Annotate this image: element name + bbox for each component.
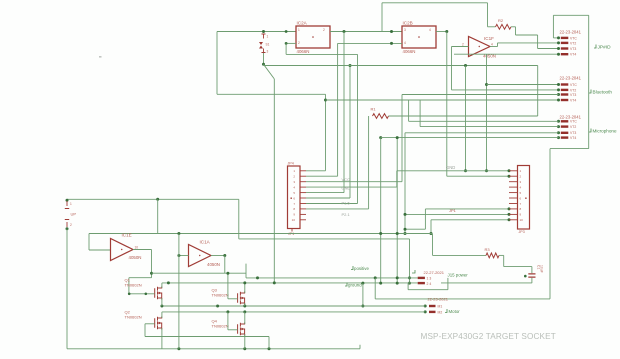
connector JP1 center mark <box>291 198 292 199</box>
node E line x227 <box>226 310 229 313</box>
node bottom rail x244 <box>243 347 246 350</box>
svg-text:JP3: JP3 <box>519 230 525 234</box>
svg-text:4: 4 <box>491 43 493 47</box>
connector JP3 pin 7 stub <box>509 203 518 205</box>
switch S1 arrow glyphs <box>259 42 263 49</box>
connector JP5 pin 2 junction <box>557 88 560 91</box>
node right socket pin 8 junction <box>508 207 511 210</box>
node positive rail x257 <box>256 276 259 279</box>
wire socket JP1 pin 4 line <box>306 186 397 188</box>
node x405 bus A <box>404 232 407 235</box>
wire IC1F input stub <box>452 46 469 48</box>
IC2B inner mark <box>418 36 420 38</box>
switch S1 pin 1 mark <box>262 34 266 39</box>
wire vertical x537 bus to R1 line <box>537 66 539 117</box>
wire IC1A output vertical x224 <box>224 256 226 274</box>
wire Q2 gate horizontal y336 <box>145 336 269 338</box>
wire socket JP1 pin 2 stub <box>306 175 338 177</box>
connector JP3 pin 9 stub <box>509 213 518 215</box>
jumper UP symbol mark <box>65 209 69 220</box>
node D line x161 <box>160 305 163 308</box>
connector JP1 pin 6 stub <box>300 197 306 199</box>
wire Q2 gate vertical x145 <box>144 324 146 337</box>
svg-text:ground: ground <box>348 283 362 288</box>
connector JP3 pin 4 stub <box>509 186 518 188</box>
connector JP3 pin 8 stub <box>509 208 518 210</box>
connector JP1 pin 8 stub <box>300 208 306 210</box>
wire ground rail y283 <box>162 282 418 284</box>
svg-text:4: 4 <box>429 28 431 32</box>
svg-text:VT3: VT3 <box>570 47 576 51</box>
svg-text:VTC: VTC <box>570 83 577 87</box>
wire to JP2 pin 3 <box>538 48 559 50</box>
svg-text:P2.1: P2.1 <box>342 212 351 217</box>
svg-text:10uF: 10uF <box>540 265 544 273</box>
wire power jumper bracket horizontal <box>408 289 448 291</box>
wire socket JP1 pin 1 stub <box>306 170 326 172</box>
node Q3 drain junction <box>243 281 246 284</box>
transistor Q3 <box>238 292 245 305</box>
connector JP3 pin 10 stub <box>509 219 518 221</box>
wire Q4 gate <box>228 329 238 331</box>
svg-text:4050N: 4050N <box>129 255 142 260</box>
wire C step vertical x246 <box>245 264 247 278</box>
node ground rail x397 <box>396 282 399 285</box>
wire socket JP1 pin 3 long stub <box>306 181 402 183</box>
node D line x244 <box>243 305 246 308</box>
wire vertical bus x357 to socket pin 7 <box>357 54 359 203</box>
svg-text:Microphone: Microphone <box>593 129 617 134</box>
svg-text:JP#ID: JP#ID <box>598 45 612 51</box>
wire Bluetooth pin 3 line <box>402 94 559 96</box>
wire right rail vertical x550 <box>549 149 551 299</box>
connector JP5 pin 1 junction <box>557 83 560 86</box>
resistor R3 <box>486 253 499 258</box>
jumper UP pin 1 stub <box>66 201 68 206</box>
connector JP8 pin 1 junction <box>424 305 427 308</box>
wire socket JP1 pin 8 stub <box>306 208 369 210</box>
svg-text:22-23-2041: 22-23-2041 <box>560 76 582 81</box>
node IC1A input junction <box>177 254 180 257</box>
connector JP2 pin 3 <box>561 47 569 49</box>
wire x269 down to rail <box>268 337 270 349</box>
node ground rail x274 <box>273 281 276 284</box>
node switch top junction <box>262 30 265 33</box>
node right socket pin 10 junction <box>508 218 511 221</box>
wire right rail vertical x588 <box>588 15 590 148</box>
wire IC1E output step left y277 <box>129 277 152 279</box>
svg-text:TN0602N: TN0602N <box>212 324 229 329</box>
connector JP1 pin 9 stub <box>300 213 306 215</box>
wire to right socket pin 9 <box>405 213 509 215</box>
node jumper UP top <box>66 199 69 202</box>
wire R1 right lead <box>389 115 538 117</box>
wire long vertical x274 <box>273 79 275 283</box>
wire R2 right lead <box>511 26 516 28</box>
wire z-route y229 <box>405 228 425 230</box>
node bus A x380 <box>379 232 382 235</box>
wire JP2 pin4 line <box>454 53 559 55</box>
node x409 ground rail <box>408 282 411 285</box>
svg-text:10: 10 <box>135 246 139 250</box>
wire to right socket pin 10 <box>431 219 509 221</box>
svg-text:R2: R2 <box>498 18 504 23</box>
wire gnd vertical x397 <box>396 138 398 284</box>
connector JP3 pin 1 stub <box>509 170 518 172</box>
wire Q3 gate vertical x227 <box>227 273 229 299</box>
wire Q2 gate <box>145 323 155 325</box>
svg-text:R1: R1 <box>371 107 377 112</box>
connector JP3 pin 3 stub <box>509 181 518 183</box>
node Q1 gate corner <box>128 293 131 296</box>
wire gnd vertical x486 <box>486 54 488 171</box>
wire right rail step y148 <box>550 148 589 150</box>
power jumper pin row 1 <box>418 277 425 279</box>
wire gnd vertical x380 <box>380 138 382 284</box>
wire vertical x157 to bus A <box>157 199 159 233</box>
connector JP2 pin 2 junction <box>557 41 560 44</box>
node IC2B pin2 junction <box>390 42 393 45</box>
svg-text:TN0602N: TN0602N <box>212 293 229 298</box>
op-amp IC1A triangle <box>189 245 212 267</box>
wire micro pin 2 line <box>420 126 558 128</box>
wire bottom rail end tick <box>359 345 361 349</box>
connector JP5 pin 3 junction <box>557 93 560 96</box>
switch S1 blade diagonal <box>264 64 275 79</box>
wire top loop horizontal y3 <box>382 2 488 4</box>
node right socket pin 9 junction <box>508 213 511 216</box>
wire long vertical x178 <box>178 234 180 349</box>
wire bottom rail y348 <box>67 348 360 350</box>
label net positive glyph <box>351 266 353 270</box>
node positive rail x397 <box>396 276 399 279</box>
wire gnd step vertical x396 <box>396 171 398 187</box>
wire vertical x446 to header pin <box>446 32 448 177</box>
jumper UP pin 2 stub <box>66 222 68 227</box>
wire power jumper bracket vertical <box>447 278 449 290</box>
wire R2 left lead <box>488 26 496 28</box>
node y199 line x157 junction <box>156 198 159 201</box>
wire GND line to right socket pin 1 <box>397 170 509 172</box>
svg-text:VT2: VT2 <box>570 125 576 129</box>
wire IC2B output <box>436 31 447 33</box>
label JP#ID glyph <box>594 45 596 49</box>
label net ground glyph <box>345 283 347 287</box>
node C line x151 <box>150 272 153 275</box>
wire to connector JP2 pin 4 <box>326 99 559 101</box>
connector JP3 pin 6 stub <box>509 197 518 199</box>
wire micro pin 4 line <box>381 137 559 139</box>
connector JP2 pin 2 <box>561 42 569 44</box>
op-amp IC1E triangle <box>111 239 134 261</box>
wire IC1E input <box>89 249 111 251</box>
svg-text:M1: M1 <box>438 305 443 309</box>
power jumper pin row 2 <box>418 282 425 284</box>
svg-text:VT4: VT4 <box>570 136 576 140</box>
wire R3 step right <box>504 266 532 268</box>
op-amp U IC2B box <box>402 26 436 48</box>
IC2A inner mark <box>312 36 314 38</box>
connector JP1 pin 7 stub <box>300 203 306 205</box>
svg-text:M2: M2 <box>438 311 443 315</box>
wire IC1F input vertical x451 <box>451 47 453 90</box>
svg-text:J15 power: J15 power <box>448 273 469 278</box>
wire Q3 source <box>244 303 246 306</box>
node Q1 gate x145 <box>145 293 148 296</box>
wire IC2A output to IC2B input <box>330 31 402 33</box>
wire Q2 source <box>161 328 163 349</box>
op-amp IC1F triangle <box>469 37 491 57</box>
connector JP1 pin 2 stub <box>300 175 306 177</box>
svg-text:JP4: JP4 <box>288 162 294 166</box>
svg-text:IC1E: IC1E <box>122 232 132 237</box>
node IC1A output junction <box>223 254 226 257</box>
wire bus A left vertical x89 <box>88 234 90 251</box>
wire IC1A output <box>211 255 225 257</box>
wire Q1 drain <box>161 283 163 288</box>
resistor R2 <box>496 24 512 29</box>
svg-text:IC1A: IC1A <box>200 240 211 245</box>
svg-text:22-23-2021: 22-23-2021 <box>428 297 449 302</box>
wire capacitor bottom lead <box>531 278 533 283</box>
connector JP6 pin 1 junction <box>557 120 560 123</box>
svg-text:VCC: VCC <box>342 177 351 182</box>
wire vertical bus x350 to socket pin 6 <box>349 66 351 199</box>
wire z-route vertical x425 <box>424 209 426 229</box>
node junction x486 Bluetooth pin1 <box>485 83 488 86</box>
wire x362 to D line <box>362 283 364 306</box>
node x397 top junction <box>396 136 399 139</box>
connector JP5 pin 1 <box>561 83 569 85</box>
label Microphone glyph <box>589 129 591 133</box>
node bus A x397 <box>396 232 399 235</box>
svg-text:VT4: VT4 <box>570 53 576 57</box>
transistor Q1 <box>155 287 162 300</box>
wire R2 step right <box>516 34 538 36</box>
connector JP3 center mark <box>525 198 526 199</box>
wire loop vertical x325 to socket pin 1 <box>325 94 327 171</box>
connector JP6 pin 4 <box>561 136 569 138</box>
connector JP2 pin 1 <box>561 37 569 39</box>
wire top loop vertical x382 <box>381 3 383 32</box>
connector JP1 bottom pin stub <box>291 229 293 232</box>
wire IC1F output step up <box>497 43 499 47</box>
connector JP2 pin 3 junction <box>557 47 560 50</box>
svg-text:2: 2 <box>462 43 464 47</box>
wire vertical x465 bus to gnd <box>465 66 467 171</box>
wire positive to bottom loop x375 <box>374 278 376 299</box>
svg-text:Motor: Motor <box>449 309 461 314</box>
node x409 positive rail <box>408 276 411 279</box>
node junction loop/P4 line <box>324 99 327 102</box>
wire IC2A pin2 horizontal y54 <box>286 53 357 55</box>
wire capacitor top lead <box>531 267 533 274</box>
node ground rail x362 <box>361 282 364 285</box>
wire top loop vertical x238 <box>238 199 240 239</box>
connector JP3 pin 5 stub <box>509 192 518 194</box>
connector JP1 body <box>288 166 301 229</box>
connector JP6 pin 1 <box>561 120 569 122</box>
label Motor glyph <box>445 309 447 313</box>
svg-text:VT2: VT2 <box>570 88 576 92</box>
node IC2A pin 2 connection <box>285 42 288 45</box>
svg-text:GND: GND <box>342 186 351 191</box>
node bottom rail x178 <box>177 347 180 350</box>
svg-text:1: 1 <box>70 202 72 206</box>
svg-text:TN0602N: TN0602N <box>125 283 142 288</box>
connector JP6 pin 3 junction <box>557 131 560 134</box>
label Bluetooth glyph <box>589 90 591 94</box>
connector JP1 pin 5 stub <box>300 192 306 194</box>
wire R3 step down <box>503 255 505 266</box>
wire Q4 gate vertical x227 <box>227 312 229 330</box>
node bus y65 x465 <box>464 64 467 67</box>
svg-text:IC2A: IC2A <box>297 21 308 26</box>
svg-text:VT3: VT3 <box>570 93 576 97</box>
wire R3 right lead <box>499 254 504 256</box>
wire IC1E output <box>133 249 152 251</box>
wire micro pin 1 line <box>409 120 559 122</box>
node micro pin4 junction <box>379 136 382 139</box>
wire R2 step down 2 <box>537 35 539 49</box>
resistor R1 <box>373 114 389 119</box>
svg-text:TN0602N: TN0602N <box>125 315 142 320</box>
svg-text:JP1: JP1 <box>449 208 457 213</box>
wire R3 left lead <box>433 254 487 256</box>
wire positive rail y277 <box>246 277 418 279</box>
node C line x227 <box>226 272 229 275</box>
switch S1 pin 3 lead <box>263 53 265 64</box>
transistor Q4 <box>238 323 245 336</box>
svg-text:2: 2 <box>323 28 325 32</box>
wire Q2 drain <box>161 312 163 318</box>
connector JP8 pin 2 junction <box>424 310 427 313</box>
wire vertical bus x344 to socket pin 5 <box>343 32 345 193</box>
wire bus B y238 <box>239 238 410 240</box>
node positive rail x375 <box>374 276 377 279</box>
node E line x244 <box>243 310 246 313</box>
svg-text:1: 1 <box>267 35 269 39</box>
connector JP1 pin 1 stub <box>300 170 306 172</box>
node D line x217 <box>216 305 219 308</box>
svg-text:1 3: 1 3 <box>427 277 432 281</box>
wire IC1A input stub <box>179 255 189 257</box>
node x405 z-route <box>404 228 407 231</box>
node right socket pin 1 junction <box>508 169 511 172</box>
svg-text:2: 2 <box>70 223 72 227</box>
wire vertical x368 to R1 <box>368 116 370 209</box>
wire micro pin 3 line <box>405 132 559 134</box>
node bus y65 x350 <box>349 64 352 67</box>
svg-text:22-27-2021: 22-27-2021 <box>424 270 445 275</box>
node D line x362 <box>361 305 364 308</box>
wire vertical x420 micro pin2 <box>419 100 421 127</box>
wire bus B end vertical x409 <box>409 239 411 283</box>
connector JP3 pin 2 stub <box>509 175 518 177</box>
wire D line y306 <box>162 305 425 307</box>
connector JP1 pin 4 stub <box>300 186 306 188</box>
wire bus A y234 <box>89 233 433 235</box>
connector JP5 pin 3 <box>561 93 569 95</box>
node x405 pin9 junction <box>404 213 407 216</box>
wire Q3 gate <box>228 298 238 300</box>
node junction x465 gnd line <box>464 169 467 172</box>
connector JP6 pin 4 junction <box>557 136 560 139</box>
node ground rail x168 <box>167 281 170 284</box>
wire IC1E output vertical x151 <box>151 250 153 278</box>
stray cursor mark <box>99 56 102 58</box>
svg-text:R3: R3 <box>485 247 491 252</box>
node bus A x178 <box>177 232 180 235</box>
svg-text:3: 3 <box>267 50 269 54</box>
node bottom rail x269 <box>268 347 271 350</box>
svg-text:22-23-2041: 22-23-2041 <box>560 30 582 35</box>
svg-text:4050N: 4050N <box>207 262 220 267</box>
svg-text:4066N: 4066N <box>297 49 310 54</box>
svg-text:VTC: VTC <box>570 120 577 124</box>
wire top-left loop y199 <box>67 198 239 200</box>
connector JP6 pin 2 <box>561 125 569 127</box>
wire top loop vertical x487 <box>487 3 489 27</box>
wire Q1 gate <box>129 293 155 295</box>
wire C line y273 <box>152 272 247 274</box>
wire Bluetooth pin 1 line <box>487 84 559 86</box>
svg-text:VT4: VT4 <box>570 98 576 102</box>
node IC2A pin 1 connection <box>285 30 288 33</box>
svg-text:10: 10 <box>520 218 524 222</box>
node bus A x431 <box>430 232 433 235</box>
wire ground rail segment to capacitor <box>441 282 532 284</box>
wire vertical x408 micro pin1 <box>408 100 410 121</box>
wire to right socket pin 8 <box>425 208 509 210</box>
svg-text:VT3: VT3 <box>570 131 576 135</box>
connector JP8 pin 2 <box>429 311 436 313</box>
IC2A pin 2 stub <box>286 42 296 44</box>
wire R2 step down <box>515 27 517 35</box>
wire vertical x402 to socket pin 3 <box>401 95 403 182</box>
svg-text:UP: UP <box>71 212 77 217</box>
wire Q4 drain <box>244 312 246 324</box>
connector JP1 pin 3 stub <box>300 181 306 183</box>
op-amp U IC2A box <box>296 26 330 48</box>
switch S1 pin 3 mark <box>262 49 266 53</box>
wire top right loop y15 <box>553 14 588 16</box>
wire vertical bus x337 to socket pin 2 <box>337 43 339 176</box>
wire socket JP1 pin 6 stub <box>306 197 350 199</box>
connector JP5 pin 4 junction <box>557 99 560 102</box>
svg-text:IC2B: IC2B <box>403 21 413 26</box>
wire power jumper bracket left vertical <box>407 283 409 290</box>
wire IC1F output <box>490 46 498 48</box>
wire Q1 source <box>161 298 163 306</box>
wire to Bluetooth pin 2 <box>452 89 559 91</box>
svg-text:VTC: VTC <box>570 36 577 40</box>
node right socket pin 2 junction <box>508 175 511 178</box>
wire socket JP1 pin 5 stub <box>306 192 344 194</box>
wire Q4 source <box>244 334 246 349</box>
wire net SCL vertical at x217 <box>216 32 218 95</box>
svg-text:4066N: 4066N <box>403 49 416 54</box>
transistor Q2 <box>155 317 162 330</box>
svg-text:Bluetooth: Bluetooth <box>593 90 613 95</box>
node jumper UP bottom <box>66 227 69 230</box>
wire loop horizontal y94 <box>217 93 326 95</box>
node ground rail x380 <box>379 282 382 285</box>
svg-text:2: 2 <box>298 41 300 45</box>
connector JP2 pin 4 junction <box>557 53 560 56</box>
connector JP6 pin 2 junction <box>557 125 560 128</box>
connector JP5 pin 4 <box>561 99 569 101</box>
